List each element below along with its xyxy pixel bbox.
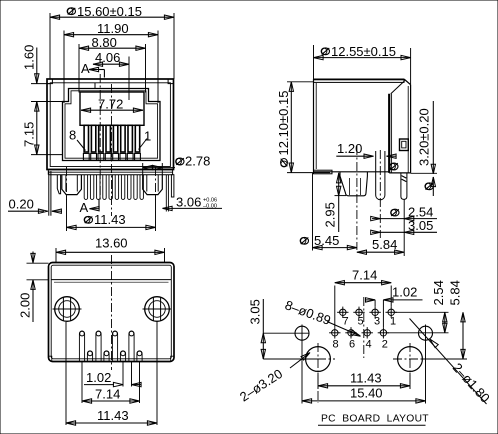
shield leg xyxy=(401,174,407,200)
svg-text:2–ø3.20: 2–ø3.20 xyxy=(237,366,285,405)
dim 15.40 (pcb) xyxy=(302,385,426,403)
svg-text:8: 8 xyxy=(333,339,339,351)
body-left extension xyxy=(312,173,314,251)
svg-text:12.55±0.15: 12.55±0.15 xyxy=(331,44,396,59)
dim 11.43 (rear) xyxy=(66,408,157,425)
svg-text:1.60: 1.60 xyxy=(22,45,37,70)
svg-text:3: 3 xyxy=(374,316,380,328)
housing outer rect xyxy=(47,79,174,170)
cavity outer outline xyxy=(63,89,161,161)
svg-text:3.05: 3.05 xyxy=(248,299,263,324)
corner block left xyxy=(47,79,52,84)
svg-text:15.60±0.15: 15.60±0.15 xyxy=(77,4,142,19)
svg-text:3.06: 3.06 xyxy=(176,195,201,210)
label 8-ø0.89 xyxy=(283,297,361,338)
flange bar xyxy=(48,169,172,171)
svg-text:1.02: 1.02 xyxy=(392,284,417,299)
dim 3.05 (pcb) xyxy=(248,299,319,359)
dim 2.54 (pcb) xyxy=(387,280,449,333)
svg-text:A: A xyxy=(80,200,89,215)
contact 1 xyxy=(135,125,141,160)
left latch post xyxy=(62,175,82,195)
dim 3.20±0.20 (right, vertical) xyxy=(411,101,437,196)
svg-text:4: 4 xyxy=(366,339,372,351)
svg-text:5.45: 5.45 xyxy=(314,233,339,248)
svg-text:15.40: 15.40 xyxy=(350,385,383,400)
svg-text:5.84: 5.84 xyxy=(372,237,397,252)
mounting hole ø3.20 right xyxy=(398,347,423,372)
rear pins short row xyxy=(87,351,142,362)
svg-text:2: 2 xyxy=(382,339,388,351)
pcb pin xyxy=(376,151,385,200)
shield leg ext line xyxy=(403,199,405,256)
svg-text:2.78: 2.78 xyxy=(185,154,210,169)
plug window rect xyxy=(80,92,144,125)
svg-text:6: 6 xyxy=(349,339,355,351)
contact 4 xyxy=(113,125,119,160)
right latch post xyxy=(143,175,163,195)
dim 2.95 xyxy=(323,173,347,232)
contact 8 xyxy=(83,125,89,160)
dim 1.02 (rear) xyxy=(84,370,141,387)
svg-text:11.43: 11.43 xyxy=(350,370,382,385)
right thin tab xyxy=(165,175,167,212)
left thin tab (0.20) xyxy=(48,171,50,216)
body outline xyxy=(314,79,405,174)
housing inner outline xyxy=(50,83,170,167)
svg-text:2.95: 2.95 xyxy=(323,202,338,227)
dim 3.06 +0.06/0.00 xyxy=(163,195,223,211)
svg-text:8.80: 8.80 xyxy=(92,35,117,50)
pin centerline xyxy=(379,150,381,238)
dim 5.84 xyxy=(357,237,404,254)
svg-text:2.54: 2.54 xyxy=(431,280,446,305)
svg-text:1.02: 1.02 xyxy=(86,370,111,385)
latch slot left edge xyxy=(94,83,96,89)
dim 4.06 xyxy=(93,50,129,100)
svg-text:7.14: 7.14 xyxy=(352,268,377,283)
dim 7.72 (window) xyxy=(81,97,143,113)
svg-text:11.43: 11.43 xyxy=(94,212,126,227)
dim ø11.43 (front) xyxy=(67,196,156,231)
svg-text:7.72: 7.72 xyxy=(98,97,123,112)
svg-text:7: 7 xyxy=(343,316,349,328)
svg-text:0.20: 0.20 xyxy=(9,197,34,212)
dim 11.43 (pcb) xyxy=(318,370,410,389)
dim 1.60 (left) xyxy=(22,45,51,84)
svg-text:11.43: 11.43 xyxy=(97,408,129,423)
dim 1.02 (pcb) xyxy=(365,284,423,327)
dim 5.45 xyxy=(300,233,357,250)
rear face xyxy=(389,79,410,173)
dim 5.84 (pcb) xyxy=(423,280,467,359)
svg-text:7.14: 7.14 xyxy=(95,387,120,402)
body inner xyxy=(51,265,171,359)
cavity inner outline xyxy=(65,91,158,158)
bottom corner notch left xyxy=(49,356,52,361)
dim 3.05 (side) xyxy=(371,218,437,235)
svg-text:2–ø1.80: 2–ø1.80 xyxy=(450,360,493,405)
dim ø15.60±0.15 xyxy=(50,4,174,79)
dim 2.00 xyxy=(18,252,49,323)
svg-text:A: A xyxy=(81,61,90,76)
dim 8.80 xyxy=(79,35,146,93)
ext 15.40 left xyxy=(301,342,303,404)
left hook xyxy=(57,175,60,194)
rear centerline xyxy=(111,255,113,370)
dim 0.20 (left tab) xyxy=(8,197,62,214)
dim 2.54 (side) xyxy=(371,204,437,220)
screw post right xyxy=(143,297,172,322)
centerline front view xyxy=(111,84,113,216)
body outer xyxy=(49,263,175,362)
top bar line xyxy=(51,279,171,281)
dim 13.60 xyxy=(56,236,165,263)
svg-text:1.20: 1.20 xyxy=(337,141,362,156)
pcb centerline xyxy=(363,297,365,358)
pad row 1 (top): pads 7,5,3,1 xyxy=(337,307,397,318)
rear pins tall row xyxy=(79,331,134,362)
ext lines pins xyxy=(122,362,124,387)
dim ø12.55±0.15 xyxy=(314,44,411,85)
pad row 2 (bottom): pads 8,6,4,2 xyxy=(329,327,389,338)
right end bar xyxy=(171,175,174,197)
svg-text:2.00: 2.00 xyxy=(18,293,33,318)
mounting peg xyxy=(340,172,367,196)
contact 2 xyxy=(127,125,133,160)
dim ø2.78 (latch) xyxy=(143,154,211,175)
corner block right xyxy=(168,79,173,84)
mounting hole ø3.20 left xyxy=(306,347,331,372)
svg-text:13.60: 13.60 xyxy=(95,236,128,251)
hole ø1.80 left xyxy=(295,326,309,340)
screw post left xyxy=(53,297,82,322)
svg-text:PC BOARD LAYOUT: PC BOARD LAYOUT xyxy=(321,414,429,425)
svg-text:5.84: 5.84 xyxy=(448,280,463,305)
svg-text:1: 1 xyxy=(390,316,396,328)
svg-text:8–ø0.89: 8–ø0.89 xyxy=(283,297,333,328)
svg-text:5: 5 xyxy=(358,316,364,328)
hole ø1.80 right xyxy=(419,326,433,340)
contact 6 xyxy=(98,125,104,160)
dim 7.14 (rear) xyxy=(82,387,140,404)
front pin tails row xyxy=(84,175,143,200)
latch centerlines xyxy=(66,167,68,200)
label 2-ø1.80 xyxy=(410,319,493,406)
label 2-ø3.20 xyxy=(237,351,311,405)
bottom corner notch right xyxy=(171,356,174,361)
peg centerline xyxy=(356,146,358,250)
svg-text:8: 8 xyxy=(69,128,76,143)
contact 3 xyxy=(120,125,126,160)
svg-text:7.15: 7.15 xyxy=(22,122,37,147)
svg-text:3.20±0.20: 3.20±0.20 xyxy=(417,108,432,166)
latch slot right edge xyxy=(128,83,130,89)
dim 7.15 (left) xyxy=(22,102,63,155)
dim 7.14 (pcb) xyxy=(335,268,391,328)
latch window xyxy=(400,139,409,151)
svg-text:12.10±0.15: 12.10±0.15 xyxy=(276,91,291,156)
section line A-A xyxy=(99,74,101,200)
contact 5 xyxy=(105,125,111,160)
dim 1.20 xyxy=(336,141,396,159)
contact 7 xyxy=(91,125,97,160)
dim ø12.10±0.15 (left, vertical) xyxy=(276,82,330,173)
dim 11.90 xyxy=(64,21,158,103)
